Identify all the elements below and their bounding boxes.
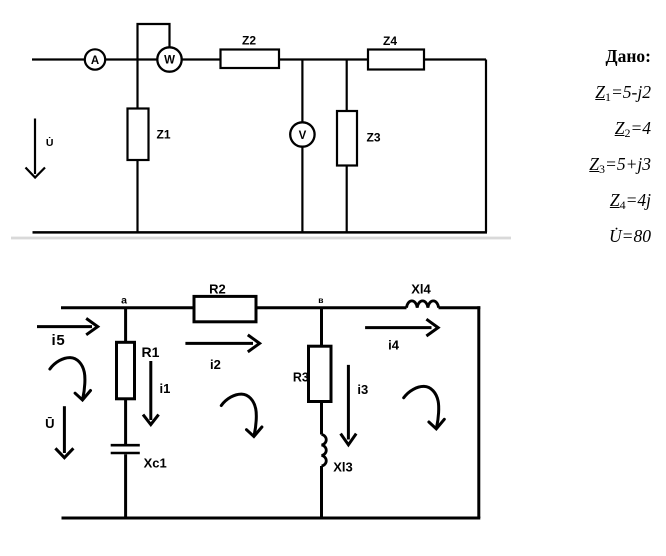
svg-text:A: A [91, 55, 99, 67]
svg-text:Xl3: Xl3 [333, 460, 353, 475]
svg-text:i3: i3 [357, 382, 368, 397]
svg-text:R1: R1 [142, 344, 160, 360]
svg-text:Ū: Ū [45, 416, 54, 431]
svg-text:a: a [121, 294, 127, 306]
svg-text:Z1: Z1 [156, 128, 170, 142]
svg-text:Xl4: Xl4 [411, 282, 431, 297]
svg-text:i1: i1 [160, 381, 171, 396]
svg-text:Xc1: Xc1 [144, 456, 167, 471]
svg-text:Z4: Z4 [383, 34, 397, 48]
svg-text:V: V [299, 130, 307, 142]
svg-text:в: в [318, 295, 323, 305]
svg-text:Z3: Z3 [366, 131, 380, 145]
svg-text:R2: R2 [209, 281, 226, 296]
svg-text:W: W [164, 55, 175, 67]
svg-text:i2: i2 [210, 357, 221, 372]
svg-text:i5: i5 [51, 332, 65, 349]
svg-text:Z2: Z2 [242, 34, 256, 48]
svg-text:R3: R3 [293, 371, 309, 385]
svg-text:i4: i4 [388, 337, 400, 352]
svg-text:U̇: U̇ [46, 137, 54, 149]
